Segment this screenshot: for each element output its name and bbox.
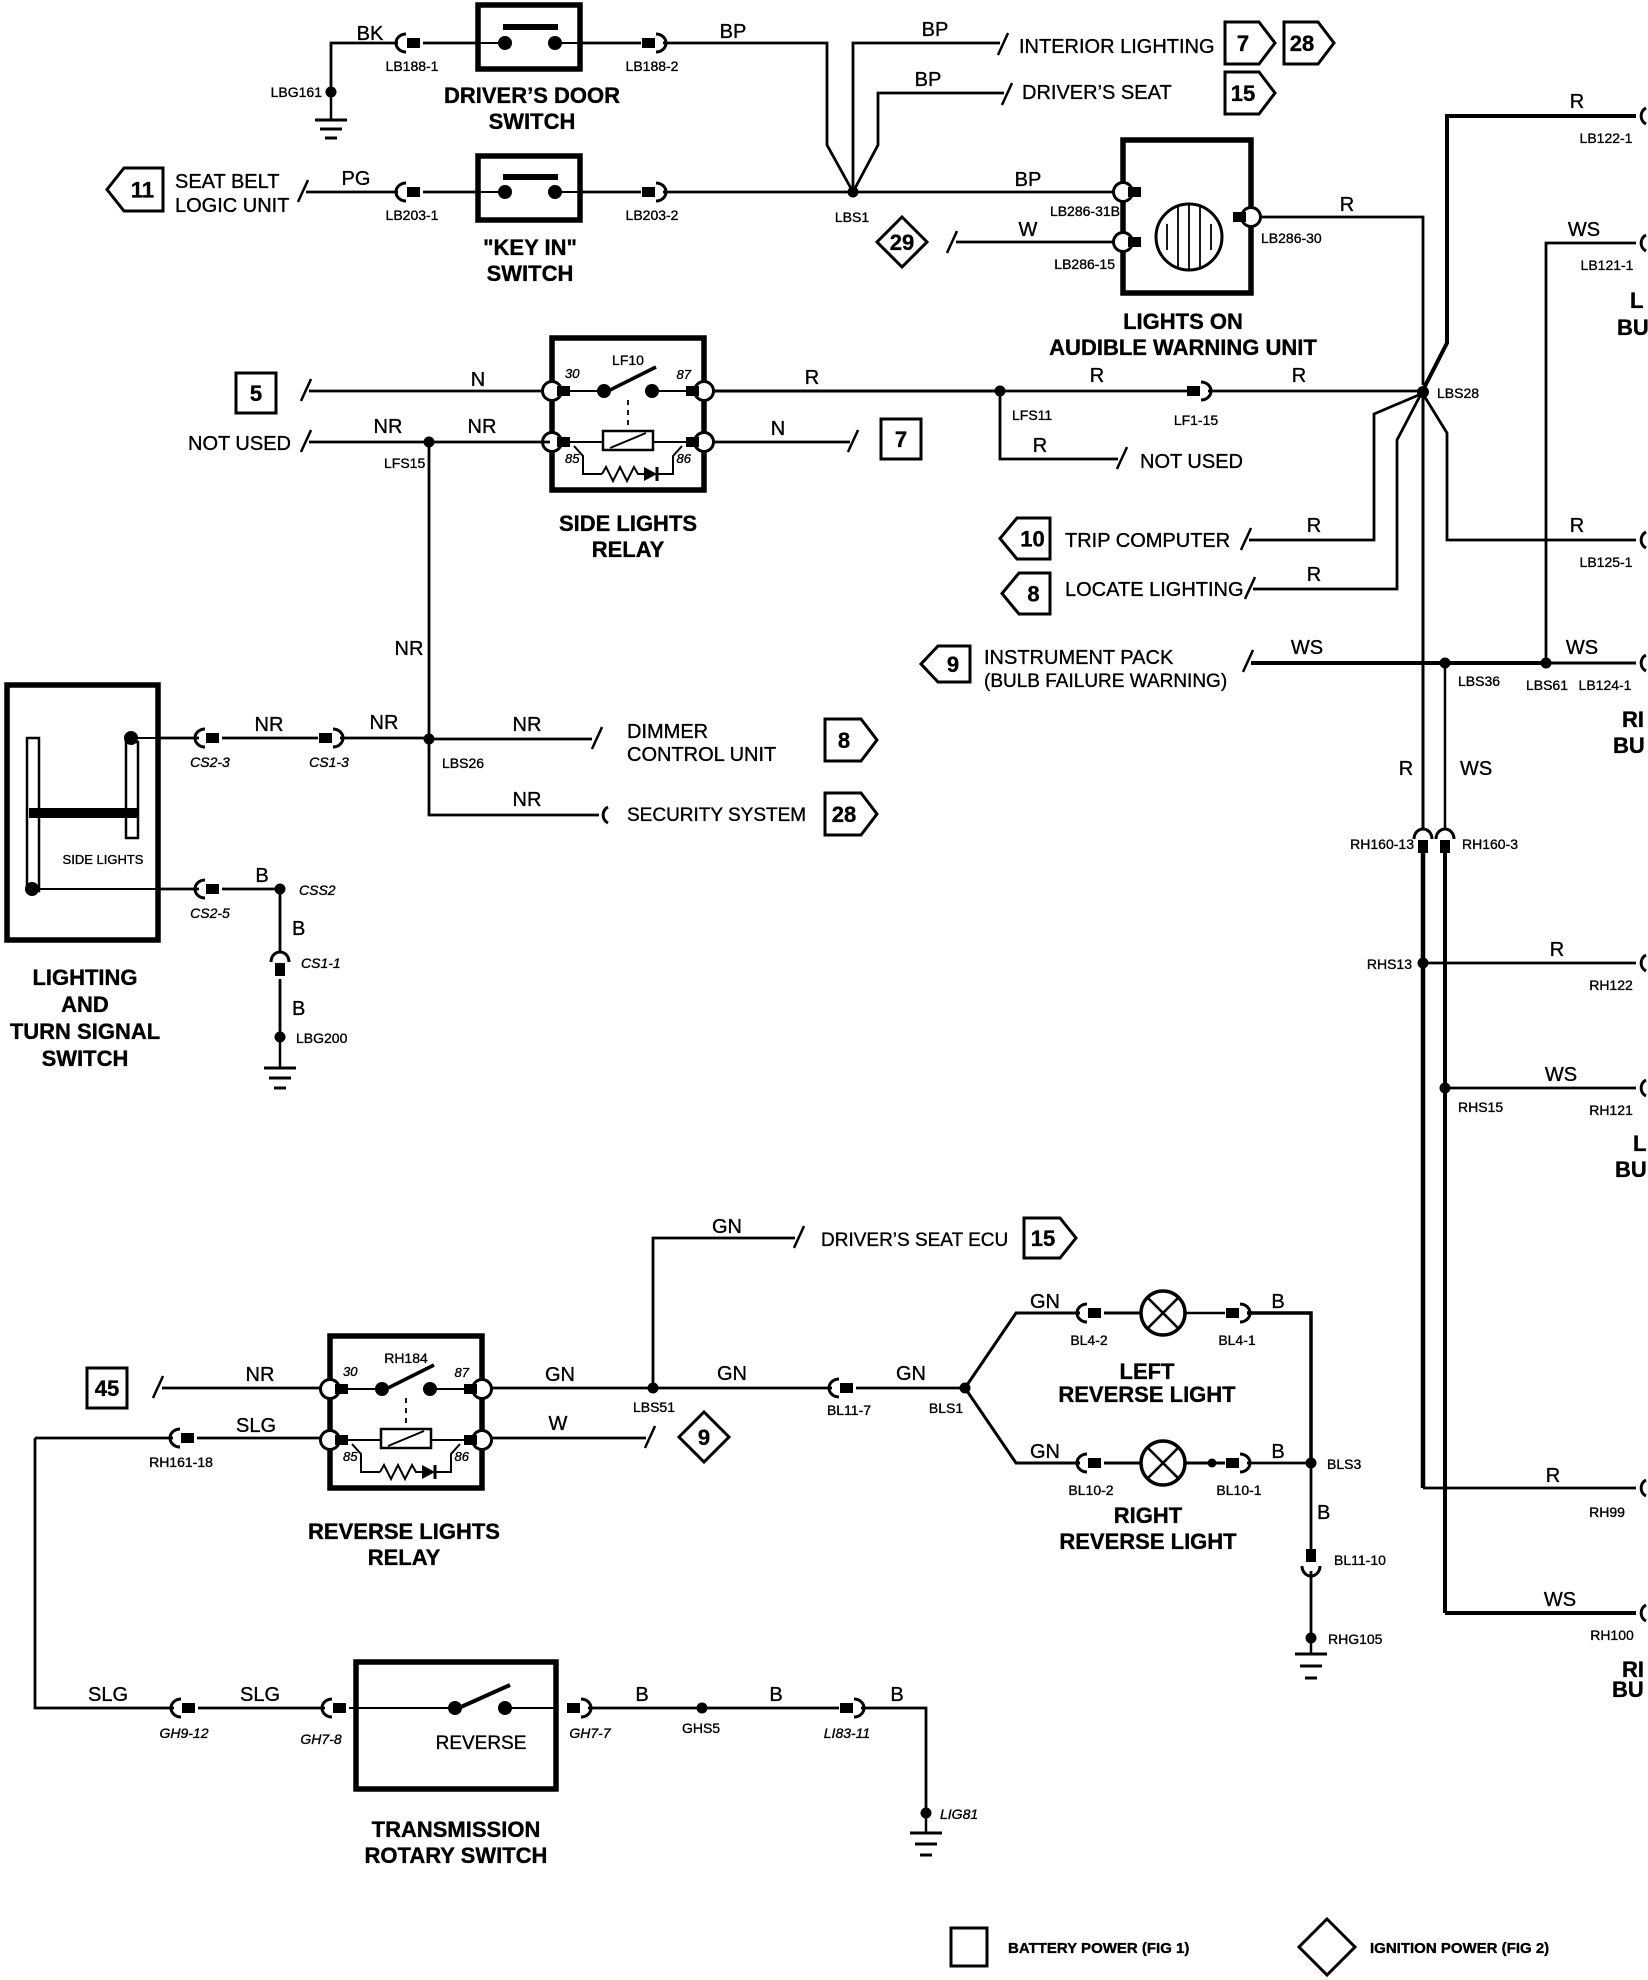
svg-text:TURN SIGNAL: TURN SIGNAL <box>10 1019 160 1044</box>
svg-text:W: W <box>549 1413 568 1435</box>
svg-text:LB124-1: LB124-1 <box>1579 677 1632 693</box>
wire NR to dimmer control unit <box>429 714 602 749</box>
wire B from switch <box>158 888 199 891</box>
svg-text:NR: NR <box>395 638 424 660</box>
connector GH9-12 <box>159 1699 208 1741</box>
svg-text:LIGHTING: LIGHTING <box>32 965 137 990</box>
wire GN BL11-7 to BLS1 <box>856 1363 965 1388</box>
svg-text:GN: GN <box>1030 1291 1060 1313</box>
wire NR LFS15 to LBS26 <box>395 442 429 739</box>
wire R to trip computer <box>1249 394 1421 540</box>
wire SLG conn to pin85 <box>197 1437 320 1440</box>
svg-text:BL11-7: BL11-7 <box>827 1402 871 1418</box>
svg-text:(BULB FAILURE WARNING): (BULB FAILURE WARNING) <box>984 671 1227 692</box>
wire W <box>947 219 1113 253</box>
svg-text:LB286-15: LB286-15 <box>1054 256 1115 272</box>
arrow 10 trip computer <box>1000 518 1050 559</box>
svg-text:N: N <box>471 369 485 391</box>
svg-text:45: 45 <box>95 1376 119 1401</box>
svg-text:R: R <box>1570 515 1584 537</box>
svg-text:LBS36: LBS36 <box>1458 673 1500 689</box>
diamond 9 <box>679 1412 729 1462</box>
node RHS15 <box>1440 1083 1504 1116</box>
svg-text:CONTROL UNIT: CONTROL UNIT <box>627 744 776 766</box>
arrow 7 <box>1225 22 1275 64</box>
node LBS1 <box>835 187 869 226</box>
svg-text:85: 85 <box>565 451 580 466</box>
connector LB203-1 <box>386 183 439 223</box>
wire NR CS2-3 to CS1-3 <box>222 714 318 738</box>
svg-text:B: B <box>635 1684 648 1706</box>
svg-text:SEAT BELT: SEAT BELT <box>175 171 279 193</box>
svg-text:RH121: RH121 <box>1589 1102 1633 1118</box>
svg-text:W: W <box>1019 219 1038 241</box>
box 5 <box>236 373 276 413</box>
svg-text:SWITCH: SWITCH <box>489 109 576 134</box>
svg-text:28: 28 <box>832 802 856 827</box>
wire R to LB125-1 <box>1423 394 1636 540</box>
svg-text:DRIVER’S DOOR: DRIVER’S DOOR <box>444 83 620 108</box>
svg-text:LBS51: LBS51 <box>633 1399 675 1415</box>
wire to switch <box>423 42 480 45</box>
wire WS to RH100 <box>1445 1589 1636 1613</box>
svg-text:BP: BP <box>1015 169 1042 191</box>
svg-text:NR: NR <box>246 1364 275 1386</box>
legend ignition power diamond <box>1299 1919 1355 1975</box>
svg-text:RELAY: RELAY <box>368 1545 441 1570</box>
wire R vertical <box>1399 392 1423 1488</box>
svg-text:WS: WS <box>1544 1589 1576 1611</box>
wire NR CS1-3 to LBS26 <box>340 712 429 738</box>
ground RHG105 <box>1295 1631 1383 1678</box>
svg-text:R: R <box>1090 365 1104 387</box>
svg-text:NR: NR <box>513 714 542 736</box>
diamond 29 <box>877 217 927 267</box>
connector BL10-1 <box>1216 1454 1261 1498</box>
arrow 15 ecu <box>1024 1218 1076 1258</box>
wire switch to LB188-2 <box>580 42 641 45</box>
svg-text:R: R <box>805 367 819 389</box>
svg-text:CS2-3: CS2-3 <box>190 754 230 770</box>
wire WS to LB121-1 <box>1546 219 1636 661</box>
svg-text:AUDIBLE WARNING UNIT: AUDIBLE WARNING UNIT <box>1049 335 1317 360</box>
ground LBG200 <box>264 1030 348 1088</box>
wire R LFS11 to not used <box>1000 391 1127 469</box>
relay RH184 reverse lights <box>321 1336 492 1488</box>
connector LB188-2 <box>626 34 679 74</box>
svg-text:SWITCH: SWITCH <box>42 1046 129 1071</box>
bulb left reverse light <box>1141 1291 1185 1335</box>
svg-text:WS: WS <box>1566 637 1598 659</box>
svg-text:B: B <box>1317 1502 1330 1524</box>
node LBS36 <box>1440 658 1501 690</box>
wire R from LB286-30 <box>1261 194 1423 385</box>
arrow 8 dimmer <box>825 719 877 761</box>
lighting and turn signal switch <box>7 685 158 940</box>
svg-text:DRIVER’S SEAT: DRIVER’S SEAT <box>1022 82 1172 104</box>
connector BL4-1 <box>1218 1304 1256 1348</box>
wire switch to LB203-2 <box>580 191 641 194</box>
svg-text:BL4-1: BL4-1 <box>1218 1332 1256 1348</box>
node CSS2 <box>275 882 336 898</box>
ground LBG161 <box>271 84 347 138</box>
svg-text:RH100: RH100 <box>1590 1627 1634 1643</box>
svg-text:11: 11 <box>131 178 154 203</box>
svg-text:LFS15: LFS15 <box>384 455 425 471</box>
svg-text:SLG: SLG <box>240 1684 280 1706</box>
svg-text:ROTARY SWITCH: ROTARY SWITCH <box>365 1843 548 1868</box>
svg-text:8: 8 <box>838 728 850 753</box>
wire B BLS3 down <box>1311 1463 1330 1549</box>
svg-text:L: L <box>1633 1131 1646 1156</box>
svg-text:10: 10 <box>1020 527 1044 552</box>
wire W from relay <box>491 1413 655 1448</box>
wire SLG long vertical <box>35 1438 174 1708</box>
svg-text:CS1-3: CS1-3 <box>309 754 349 770</box>
svg-text:DIMMER: DIMMER <box>627 721 708 743</box>
connector BL11-7 <box>827 1379 871 1418</box>
svg-text:INTERIOR LIGHTING: INTERIOR LIGHTING <box>1019 36 1215 58</box>
svg-text:LOCATE LIGHTING: LOCATE LIGHTING <box>1065 579 1244 601</box>
svg-text:LIG81: LIG81 <box>940 1806 978 1822</box>
lights on audible warning unit <box>1114 140 1261 293</box>
wire NR from switch <box>158 737 199 740</box>
svg-text:LF1-15: LF1-15 <box>1174 412 1219 428</box>
svg-text:86: 86 <box>455 1449 470 1464</box>
svg-text:RHG105: RHG105 <box>1328 1631 1383 1647</box>
svg-text:R: R <box>1399 758 1413 780</box>
svg-text:86: 86 <box>677 451 692 466</box>
svg-text:RHS13: RHS13 <box>1367 956 1412 972</box>
svg-text:LI83-11: LI83-11 <box>824 1725 870 1741</box>
svg-text:BLS3: BLS3 <box>1327 1456 1361 1472</box>
node LFS11 <box>995 386 1053 424</box>
svg-text:30: 30 <box>565 366 580 381</box>
connector CS2-5 <box>190 880 230 921</box>
svg-text:TRIP COMPUTER: TRIP COMPUTER <box>1065 530 1230 552</box>
svg-text:IGNITION POWER (FIG 2): IGNITION POWER (FIG 2) <box>1370 1940 1549 1957</box>
connector BL11-10 <box>1302 1549 1386 1576</box>
wire BP to audible unit <box>663 169 1113 192</box>
transmission rotary switch <box>349 1662 556 1789</box>
svg-text:R: R <box>1546 1465 1560 1487</box>
svg-text:LB188-1: LB188-1 <box>386 58 439 74</box>
svg-text:LEFT: LEFT <box>1120 1359 1176 1384</box>
svg-text:GH7-7: GH7-7 <box>569 1725 611 1741</box>
wire BK <box>331 23 398 92</box>
wire to key-in switch <box>423 191 480 194</box>
wire R to locate lighting <box>1253 394 1421 589</box>
node GHS5 <box>682 1703 720 1737</box>
bulb right reverse light <box>1141 1441 1185 1485</box>
svg-text:BLS1: BLS1 <box>929 1400 963 1416</box>
svg-text:NOT USED: NOT USED <box>1140 451 1243 473</box>
svg-text:R: R <box>1292 365 1306 387</box>
wire N to box 7 <box>713 418 858 452</box>
svg-text:8: 8 <box>1027 582 1039 607</box>
svg-text:INSTRUMENT PACK: INSTRUMENT PACK <box>984 647 1174 669</box>
wire NR to security system <box>429 739 608 823</box>
svg-text:RH184: RH184 <box>384 1350 428 1366</box>
node BLS3 <box>1306 1456 1362 1472</box>
svg-text:BU: BU <box>1615 1157 1647 1182</box>
connector GH7-7 <box>567 1699 612 1741</box>
svg-text:LB286-31B: LB286-31B <box>1050 203 1120 219</box>
wire NR not used <box>301 416 550 452</box>
svg-text:RH99: RH99 <box>1589 1504 1625 1520</box>
svg-text:LB203-1: LB203-1 <box>386 207 439 223</box>
svg-text:LB203-2: LB203-2 <box>626 207 679 223</box>
svg-text:BP: BP <box>720 21 747 43</box>
svg-text:NR: NR <box>374 416 403 438</box>
svg-text:9: 9 <box>698 1425 710 1450</box>
svg-text:B: B <box>890 1684 903 1706</box>
wire GN to right bulb <box>965 1388 1080 1463</box>
svg-text:"KEY IN": "KEY IN" <box>483 235 577 260</box>
svg-text:RHS15: RHS15 <box>1458 1099 1503 1115</box>
svg-text:R: R <box>1550 939 1564 961</box>
svg-text:5: 5 <box>250 381 262 406</box>
svg-text:LBG200: LBG200 <box>296 1030 348 1046</box>
wire GN LBS51 to BL11-7 <box>653 1363 832 1388</box>
svg-text:7: 7 <box>895 427 907 452</box>
svg-text:B: B <box>255 865 268 887</box>
arrow 15 <box>1225 72 1275 114</box>
svg-text:RIGHT: RIGHT <box>1114 1503 1183 1528</box>
connector CS1-1 <box>271 952 341 976</box>
label LOCATE LIGHTING <box>1065 577 1255 601</box>
svg-text:LBS61: LBS61 <box>1526 677 1568 693</box>
svg-text:B: B <box>769 1684 782 1706</box>
svg-text:LBS28: LBS28 <box>1437 385 1479 401</box>
svg-text:WS: WS <box>1291 637 1323 659</box>
connector LI83-11 <box>824 1699 870 1741</box>
wire SLG to relay <box>35 1415 276 1438</box>
wire B GH7-7 to GHS5 <box>588 1684 702 1708</box>
svg-text:RH160-3: RH160-3 <box>1462 836 1518 852</box>
svg-text:GN: GN <box>1030 1441 1060 1463</box>
node LBS61 <box>1526 658 1568 694</box>
node LBS26 <box>424 734 485 772</box>
edge connector RH99 <box>1589 1480 1646 1520</box>
svg-text:30: 30 <box>343 1364 358 1379</box>
svg-text:SWITCH: SWITCH <box>487 261 574 286</box>
svg-text:GH9-12: GH9-12 <box>159 1725 208 1741</box>
svg-text:REVERSE: REVERSE <box>436 1733 527 1754</box>
svg-text:BU: BU <box>1612 1677 1644 1702</box>
svg-text:N: N <box>771 418 785 440</box>
svg-text:B: B <box>292 918 305 940</box>
svg-text:R: R <box>1307 564 1321 586</box>
connector LB203-2 <box>626 183 679 223</box>
svg-text:R: R <box>1307 515 1321 537</box>
svg-text:BU: BU <box>1613 733 1645 758</box>
wire R to RH99 <box>1423 1465 1636 1488</box>
svg-text:28: 28 <box>1290 31 1314 56</box>
wire to right bulb <box>1104 1462 1141 1465</box>
wire B BL11-10 to RHG105 <box>1310 1571 1313 1638</box>
svg-text:LF10: LF10 <box>612 352 644 368</box>
svg-text:LBG161: LBG161 <box>271 84 323 100</box>
svg-text:PG: PG <box>342 168 371 190</box>
wire R to LF1-15 <box>1000 365 1187 391</box>
svg-text:LOGIC UNIT: LOGIC UNIT <box>175 195 289 217</box>
svg-text:NOT USED: NOT USED <box>188 433 291 455</box>
svg-text:BL11-10: BL11-10 <box>1334 1552 1386 1568</box>
svg-text:RI: RI <box>1622 707 1644 732</box>
connector LB188-1 <box>386 34 439 74</box>
svg-text:NR: NR <box>513 789 542 811</box>
svg-text:GN: GN <box>717 1363 747 1385</box>
svg-text:SIDE LIGHTS: SIDE LIGHTS <box>63 852 144 867</box>
node LBS51 <box>633 1383 675 1416</box>
svg-text:BP: BP <box>922 19 949 41</box>
svg-text:GH7-8: GH7-8 <box>300 1731 341 1747</box>
svg-text:BK: BK <box>357 23 384 45</box>
svg-text:BL4-2: BL4-2 <box>1070 1332 1108 1348</box>
svg-text:BP: BP <box>915 69 942 91</box>
legend battery power square <box>951 1928 987 1966</box>
svg-text:B: B <box>292 998 305 1020</box>
svg-text:BL10-2: BL10-2 <box>1068 1482 1113 1498</box>
edge connector LB124-1 <box>1579 655 1646 693</box>
box 7 <box>881 419 921 459</box>
svg-text:BL10-1: BL10-1 <box>1216 1482 1261 1498</box>
svg-text:LB188-2: LB188-2 <box>626 58 679 74</box>
arrow 9 instrument pack <box>921 646 970 682</box>
svg-text:B: B <box>1271 1441 1284 1463</box>
wire R relay to LFS11 <box>713 367 1000 391</box>
ground LIG81 <box>910 1806 978 1855</box>
edge connector RH122 <box>1589 955 1646 993</box>
edge connector LB122-1 <box>1580 108 1646 146</box>
svg-text:WS: WS <box>1460 758 1492 780</box>
arrow 28 security <box>825 793 877 835</box>
svg-text:BATTERY POWER (FIG 1): BATTERY POWER (FIG 1) <box>1008 1940 1189 1957</box>
svg-text:87: 87 <box>677 367 692 382</box>
svg-text:REVERSE LIGHTS: REVERSE LIGHTS <box>308 1519 500 1544</box>
svg-text:85: 85 <box>343 1449 358 1464</box>
wire GN relay to LBS51 <box>491 1364 653 1388</box>
svg-text:R: R <box>1033 435 1047 457</box>
wire BP to driver's seat <box>853 69 1012 192</box>
svg-text:BU: BU <box>1617 315 1648 340</box>
wire left bulb to BL4-1 <box>1185 1312 1225 1315</box>
wire R to LBS28 <box>1208 365 1418 391</box>
edge connector LB121-1 <box>1581 235 1646 273</box>
svg-text:87: 87 <box>455 1365 470 1380</box>
svg-text:RELAY: RELAY <box>592 537 665 562</box>
svg-text:RH160-13: RH160-13 <box>1350 836 1414 852</box>
key-in switch <box>478 156 580 220</box>
node RHS13 <box>1367 956 1429 972</box>
wire PG <box>298 168 398 202</box>
box 45 <box>87 1368 127 1408</box>
node BLS1 <box>929 1383 971 1417</box>
connector BL4-2 <box>1070 1304 1108 1348</box>
svg-text:CS1-1: CS1-1 <box>301 955 341 971</box>
svg-text:7: 7 <box>1237 31 1249 56</box>
svg-text:LB122-1: LB122-1 <box>1580 130 1633 146</box>
svg-text:R: R <box>1570 91 1584 113</box>
driver's door switch <box>478 5 580 69</box>
svg-text:GHS5: GHS5 <box>682 1720 720 1736</box>
svg-text:TRANSMISSION: TRANSMISSION <box>372 1817 541 1842</box>
svg-text:GN: GN <box>896 1363 926 1385</box>
wire SLG GH9-12 to GH7-8 <box>198 1684 325 1708</box>
wire BP to interior lighting <box>853 19 1008 192</box>
svg-text:SLG: SLG <box>88 1684 128 1706</box>
svg-text:LB286-30: LB286-30 <box>1261 230 1322 246</box>
svg-text:RH161-18: RH161-18 <box>149 1454 213 1470</box>
svg-text:NR: NR <box>255 714 284 736</box>
svg-text:WS: WS <box>1545 1064 1577 1086</box>
edge connector LB125-1 <box>1580 532 1646 570</box>
svg-text:SLG: SLG <box>236 1415 276 1437</box>
svg-text:L: L <box>1630 288 1643 313</box>
wire B to LIG81 <box>861 1684 926 1813</box>
svg-text:NR: NR <box>468 416 497 438</box>
svg-text:LBS1: LBS1 <box>835 209 869 225</box>
connector RH160-13 <box>1350 829 1432 853</box>
svg-text:GN: GN <box>712 1216 742 1238</box>
svg-text:GN: GN <box>545 1364 575 1386</box>
svg-text:R: R <box>1340 194 1354 216</box>
wire B CSS2 down <box>280 889 305 953</box>
svg-text:15: 15 <box>1031 1226 1055 1251</box>
svg-text:B: B <box>1271 1291 1284 1313</box>
arrow 8 locate lighting <box>1002 573 1050 614</box>
svg-text:DRIVER’S SEAT ECU: DRIVER’S SEAT ECU <box>821 1230 1008 1251</box>
edge connector RH121 <box>1589 1080 1646 1118</box>
wire WS vertical <box>1445 663 1492 1613</box>
wire R RHS13 to RH122 <box>1423 939 1636 963</box>
svg-text:LFS11: LFS11 <box>1012 407 1052 423</box>
wire to left bulb <box>1104 1312 1141 1315</box>
wire NR to relay RH184 <box>153 1364 320 1398</box>
svg-text:REVERSE LIGHT: REVERSE LIGHT <box>1059 1529 1237 1554</box>
connector LF1-15 <box>1174 382 1219 428</box>
svg-text:9: 9 <box>947 652 959 677</box>
svg-text:SECURITY SYSTEM: SECURITY SYSTEM <box>627 805 806 826</box>
wire B CS1-1 to LBG200 <box>280 979 305 1037</box>
svg-text:SIDE LIGHTS: SIDE LIGHTS <box>559 511 697 536</box>
svg-text:CSS2: CSS2 <box>299 882 336 898</box>
connector RH160-3 <box>1436 829 1518 853</box>
connector CS2-3 <box>190 729 230 770</box>
svg-text:29: 29 <box>890 230 914 255</box>
wire N to relay <box>301 369 542 401</box>
relay LF10 side lights <box>543 338 714 490</box>
wire B CS2-5 to CSS2 <box>222 865 280 889</box>
connector GH7-8 <box>300 1699 346 1747</box>
svg-text:LIGHTS ON: LIGHTS ON <box>1123 309 1243 334</box>
edge connector RH100 <box>1590 1605 1646 1643</box>
wire WS RHS15 to RH121 <box>1445 1064 1636 1088</box>
arrow 28 <box>1284 22 1334 64</box>
svg-text:CS2-5: CS2-5 <box>190 905 230 921</box>
wire B left bulb <box>1247 1291 1311 1463</box>
wire B right bulb <box>1247 1441 1311 1463</box>
wire WS instrument pack <box>1243 637 1636 672</box>
node LBS28 <box>1417 385 1479 401</box>
svg-text:NR: NR <box>370 712 399 734</box>
wire BP to LBS1 <box>663 21 853 192</box>
connector RH161-18 <box>149 1429 213 1470</box>
svg-text:RH122: RH122 <box>1589 977 1633 993</box>
svg-text:REVERSE LIGHT: REVERSE LIGHT <box>1058 1382 1236 1407</box>
node LFS15 <box>384 437 435 472</box>
